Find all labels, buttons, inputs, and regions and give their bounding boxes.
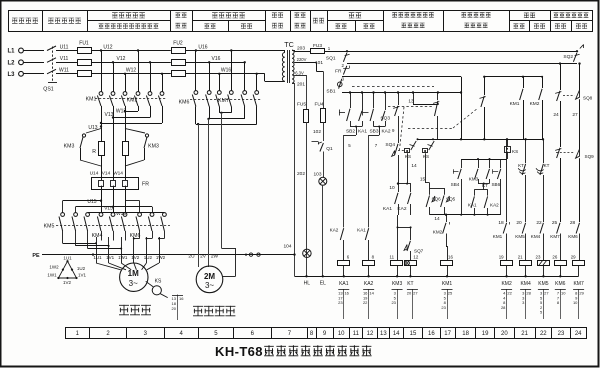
fuse FU4: [314, 101, 325, 122]
contact KM2 interlock: [433, 215, 454, 261]
fuse FU1: [78, 41, 171, 77]
fuse FU5: [297, 101, 309, 122]
wire TC primary bottom: [265, 74, 285, 82]
xref KM3: [391, 289, 402, 319]
svg-text:FU1: FU1: [79, 41, 89, 47]
wire node 7: [369, 126, 386, 228]
column number strip: [66, 327, 587, 338]
svg-text:23: 23: [338, 300, 343, 305]
svg-text:FU5: FU5: [297, 101, 306, 107]
mech dash diag: [408, 108, 478, 129]
svg-text:14: 14: [393, 331, 400, 337]
svg-text:KM3: KM3: [64, 144, 75, 150]
labels U14 V14 W14: [90, 171, 124, 177]
svg-text:KA1: KA1: [339, 281, 349, 287]
wire 15 drop: [420, 177, 445, 195]
svg-text:1U1: 1U1: [93, 255, 102, 260]
label EL: [320, 281, 326, 287]
speed group feed wires: [63, 201, 165, 214]
contact KM7 interlock: [550, 223, 560, 260]
svg-text:23: 23: [441, 305, 446, 310]
svg-text:1W2: 1W2: [49, 265, 59, 270]
wire 202: [295, 83, 306, 276]
svg-text:SQ3: SQ3: [380, 116, 390, 122]
svg-text:V13: V13: [105, 112, 114, 118]
svg-text:KM4: KM4: [531, 234, 541, 239]
label 10: [389, 182, 399, 191]
svg-text:16: 16: [344, 291, 349, 296]
motor 1M: [120, 263, 148, 291]
svg-text:27: 27: [413, 291, 418, 296]
switch SQ1: [326, 50, 350, 68]
limit SQ7: [404, 241, 424, 260]
svg-text:2W: 2W: [211, 253, 219, 259]
contact KM4 interlock: [531, 223, 544, 260]
relay KS contact b: [423, 138, 435, 182]
svg-text:EL: EL: [320, 281, 326, 287]
svg-text:U14: U14: [90, 171, 99, 177]
svg-text:KA1: KA1: [357, 228, 366, 233]
svg-text:1U2: 1U2: [77, 266, 86, 271]
wire 101: [315, 60, 324, 109]
label W15: [116, 189, 126, 217]
label U16: [198, 44, 207, 50]
wire node 5: [344, 126, 363, 228]
svg-text:16: 16: [448, 255, 453, 260]
mech link SB1 dashed: [352, 86, 434, 88]
svg-text:16: 16: [179, 296, 184, 301]
contact v438: [433, 93, 439, 140]
contact KM6 interlock: [568, 223, 579, 260]
svg-text:V12: V12: [117, 56, 126, 62]
resistor R2: [123, 142, 129, 178]
wire 102: [313, 123, 324, 142]
svg-text:12: 12: [413, 255, 418, 260]
xref KM6: [555, 289, 566, 319]
contact KA2 selfhold: [381, 93, 390, 135]
svg-text:29: 29: [571, 255, 576, 260]
contact v560 lower: [555, 148, 561, 222]
relay KS contact c: [505, 139, 519, 159]
limit SQ5: [441, 196, 456, 215]
label W12: [126, 68, 137, 74]
svg-text:L1: L1: [7, 49, 15, 55]
title KH-T68 horizontal boring machine electrical schematic: [215, 344, 372, 359]
button SB6: [491, 169, 500, 215]
svg-text:1W2: 1W2: [156, 255, 166, 260]
svg-text:KM4: KM4: [92, 233, 103, 239]
svg-text:23: 23: [391, 300, 396, 305]
contact FR nc: [335, 64, 349, 82]
wire HL drop: [306, 122, 308, 249]
svg-text:2M: 2M: [204, 272, 215, 281]
label main motor: [119, 305, 151, 315]
coil KM5: [536, 255, 550, 287]
svg-text:KM2: KM2: [433, 229, 443, 234]
label V12: [117, 56, 126, 62]
xref KM1: [441, 289, 453, 319]
wire V11: [58, 56, 77, 63]
svg-text:23: 23: [558, 331, 565, 337]
svg-text:KS: KS: [512, 149, 518, 154]
svg-text:14: 14: [369, 291, 374, 296]
svg-text:15: 15: [410, 331, 417, 337]
svg-text:L3: L3: [7, 72, 15, 78]
svg-text:2U: 2U: [188, 253, 195, 259]
svg-text:TC: TC: [284, 40, 294, 49]
svg-text:KS: KS: [423, 154, 429, 159]
svg-text:FR: FR: [335, 68, 342, 74]
label 103: [313, 172, 321, 178]
svg-text:SB4: SB4: [451, 182, 460, 187]
svg-text:FU4: FU4: [314, 101, 323, 107]
button SB4: [451, 169, 462, 215]
label 28: [570, 220, 576, 226]
wire TC primary top: [284, 51, 286, 53]
label 6.3V: [294, 70, 306, 75]
svg-text:23: 23: [536, 255, 541, 260]
motor 1M feeder fan: [96, 255, 160, 270]
svg-text:KM5: KM5: [44, 224, 55, 230]
delta winding diagram: [47, 256, 86, 286]
contact KT delay 2: [536, 139, 550, 226]
wire 201 to FU5: [306, 75, 308, 109]
svg-text:17: 17: [444, 331, 451, 337]
svg-text:28: 28: [570, 220, 576, 226]
svg-text:12: 12: [367, 331, 374, 337]
lamp EL: [319, 177, 327, 276]
terminal L2: [7, 60, 44, 66]
label 201: [292, 82, 305, 88]
limit SQ3: [380, 93, 399, 144]
mech dash SQ8: [563, 95, 575, 97]
wire v484 upper: [483, 76, 485, 95]
coil KM2: [499, 255, 513, 287]
motor 2M: [196, 266, 223, 293]
wire W11: [58, 68, 77, 74]
limit SQ6: [426, 196, 441, 215]
svg-text:SB1: SB1: [326, 89, 335, 95]
svg-text:27: 27: [572, 112, 578, 118]
wire to coils KM3 KT: [397, 204, 412, 260]
svg-text:10: 10: [338, 331, 345, 337]
wire 2U: [198, 124, 200, 267]
svg-text:KA1: KA1: [383, 206, 392, 212]
xref KA2: [363, 289, 375, 319]
svg-text:21: 21: [518, 255, 523, 260]
wire 104 label: [283, 244, 295, 256]
svg-text:1V2: 1V2: [131, 255, 140, 260]
contact KA1 interlock: [357, 228, 369, 261]
svg-text:1V2: 1V2: [63, 280, 72, 285]
coil KT mark: [405, 261, 409, 265]
svg-text:L2: L2: [7, 60, 15, 66]
contact KA2 b: [397, 193, 410, 215]
contactors KM5 KM4 KM6 main contacts: [44, 213, 170, 239]
transformer TC: [282, 40, 294, 83]
svg-text:KM7: KM7: [573, 281, 584, 287]
svg-text:24: 24: [575, 331, 582, 337]
svg-text:11: 11: [353, 331, 360, 337]
svg-text:KS: KS: [155, 279, 162, 285]
wire U13 down: [101, 123, 103, 141]
svg-text:11: 11: [390, 255, 395, 260]
svg-text:U15: U15: [87, 199, 96, 205]
svg-text:20: 20: [516, 220, 522, 226]
contact KT delay 1: [516, 139, 525, 226]
reversing cross wires: [100, 106, 163, 124]
xref KA1: [338, 289, 350, 319]
wire jog merge: [474, 183, 489, 196]
svg-text:KM3: KM3: [392, 281, 403, 287]
wire split to pair: [398, 155, 411, 192]
relay KS contact a: [398, 138, 419, 183]
coil KM5 hatch: [539, 261, 547, 266]
svg-text:V14: V14: [102, 171, 111, 177]
contact KA2 interlock: [330, 228, 344, 261]
switch SQ2: [563, 45, 583, 64]
coil KA1: [338, 255, 350, 287]
wire bottom bus: [295, 275, 579, 277]
svg-text:KM6: KM6: [555, 281, 566, 287]
label U15: [87, 189, 102, 213]
svg-text:KA2: KA2: [330, 228, 339, 233]
rapid reversing cross wires: [196, 107, 257, 126]
label 24: [553, 112, 559, 118]
contact KA2 jog: [484, 196, 499, 214]
limit SQ8: [576, 62, 593, 149]
wire line3b: [484, 76, 543, 78]
mech dash SQ9: [556, 152, 575, 154]
xref KM7: [573, 289, 585, 319]
svg-text:14: 14: [434, 216, 440, 222]
svg-text:W14: W14: [113, 171, 123, 177]
label U12: [103, 44, 112, 50]
label 203: [292, 46, 305, 52]
button SB1: [326, 77, 342, 95]
label PE: [32, 253, 40, 259]
coil KM1: [441, 261, 453, 287]
svg-text:KA2: KA2: [490, 203, 499, 208]
wire line 214: [430, 214, 501, 216]
fuse FU2: [172, 41, 286, 77]
svg-text:FR: FR: [142, 182, 149, 188]
label 13 and line: [408, 93, 439, 106]
contact linked 484: [480, 96, 486, 140]
svg-text:1W1: 1W1: [47, 273, 57, 278]
svg-text:KM6: KM6: [179, 100, 190, 106]
coil KM3: [390, 255, 403, 287]
svg-text:14: 14: [411, 163, 417, 169]
wire U11: [58, 44, 77, 50]
button SB2: [339, 93, 355, 135]
limit SQ9: [576, 149, 595, 222]
svg-text:PE: PE: [32, 253, 40, 259]
wire PE: [42, 253, 295, 255]
svg-text:KM2: KM2: [501, 281, 512, 287]
svg-text:203: 203: [297, 46, 305, 52]
svg-text:25: 25: [448, 291, 453, 296]
svg-text:R: R: [92, 149, 96, 155]
svg-text:22: 22: [507, 291, 512, 296]
svg-text:3~: 3~: [205, 281, 214, 290]
svg-text:103: 103: [313, 172, 321, 178]
svg-text:1V1: 1V1: [106, 255, 115, 260]
wire v560: [555, 62, 561, 147]
svg-text:20: 20: [407, 291, 412, 296]
resistor R: [92, 142, 104, 178]
svg-text:28: 28: [501, 305, 506, 310]
contact KA1 jog: [468, 196, 477, 214]
svg-text:KM1: KM1: [86, 97, 97, 103]
xref KM5: [538, 289, 549, 319]
svg-text:SB3: SB3: [369, 129, 378, 135]
wire W13 down: [125, 111, 127, 141]
svg-text:SB2: SB2: [346, 129, 355, 135]
label 220V: [294, 57, 316, 62]
svg-text:102: 102: [313, 129, 321, 135]
svg-text:U12: U12: [103, 44, 112, 50]
svg-text:KM5: KM5: [515, 234, 525, 239]
svg-text:KM1: KM1: [442, 281, 453, 287]
svg-text:SQ4: SQ4: [385, 142, 395, 148]
contact KM1 interlock: [493, 222, 510, 260]
svg-text:QS1: QS1: [43, 87, 53, 93]
svg-text:SQ7: SQ7: [414, 249, 424, 254]
wire loop top: [461, 158, 507, 168]
svg-text:1U2: 1U2: [144, 255, 153, 260]
svg-text:SB6: SB6: [491, 182, 500, 187]
labels 2U 2V 2W: [188, 253, 218, 259]
label HL: [304, 281, 311, 287]
contactor KM3 bypass contacts: [64, 129, 159, 167]
svg-text:3~: 3~: [129, 279, 138, 288]
xref KT: [407, 289, 419, 319]
label rapid motor: [193, 306, 235, 316]
svg-text:W13: W13: [116, 108, 127, 114]
terminal L1: [7, 48, 44, 54]
connector inline: [245, 253, 260, 256]
svg-text:U11: U11: [60, 44, 69, 50]
svg-text:U16: U16: [198, 44, 207, 50]
label 27: [572, 112, 578, 118]
wire line2: [347, 63, 577, 65]
wire line 139: [418, 138, 545, 140]
svg-text:21: 21: [521, 331, 528, 337]
svg-text:HL: HL: [304, 281, 311, 287]
svg-text:FU3: FU3: [313, 43, 322, 49]
svg-text:KM6: KM6: [568, 234, 578, 239]
svg-text:KS: KS: [405, 154, 411, 159]
svg-text:FU2: FU2: [173, 41, 183, 47]
label W16: [221, 68, 232, 74]
svg-text:22: 22: [540, 331, 547, 337]
KS cross reference: [172, 295, 185, 321]
svg-text:6.3V: 6.3V: [295, 70, 304, 75]
svg-text:SQ1: SQ1: [326, 55, 336, 61]
svg-text:1M: 1M: [128, 269, 139, 278]
coil KT: [405, 255, 419, 287]
svg-text:KM2: KM2: [530, 101, 540, 107]
coil KA2: [363, 255, 375, 287]
motor feeder merge wires: [63, 231, 165, 255]
svg-text:20: 20: [501, 331, 508, 337]
thermal relay FR: [92, 177, 150, 190]
svg-text:KM7: KM7: [218, 98, 229, 104]
wire 2W: [221, 113, 235, 277]
svg-text:SQ8: SQ8: [583, 95, 593, 100]
svg-text:104: 104: [283, 244, 291, 250]
switch Q1: [312, 142, 334, 178]
svg-text:19: 19: [499, 255, 504, 260]
svg-text:29: 29: [579, 291, 584, 296]
wire control bus: [342, 91, 461, 93]
contact KM5 interlock: [515, 223, 525, 260]
svg-text:KM3: KM3: [148, 144, 159, 150]
svg-text:24: 24: [553, 112, 559, 118]
svg-text:10: 10: [561, 291, 566, 296]
svg-text:KM1: KM1: [493, 234, 503, 239]
svg-text:10: 10: [389, 185, 395, 191]
svg-text:1W1: 1W1: [118, 255, 128, 260]
wire 2V: [208, 119, 210, 267]
svg-text:13: 13: [380, 331, 387, 337]
svg-text:19: 19: [482, 331, 489, 337]
svg-text:1U1: 1U1: [63, 256, 72, 261]
coil KM7: [571, 255, 585, 287]
label V16: [212, 56, 221, 62]
svg-text:10: 10: [573, 300, 578, 305]
svg-text:KM5: KM5: [538, 281, 549, 287]
svg-text:KM2: KM2: [127, 97, 138, 103]
xref KM4: [520, 289, 531, 319]
svg-text:22: 22: [536, 220, 542, 226]
svg-text:KT: KT: [518, 163, 524, 168]
svg-text:KA2: KA2: [381, 129, 390, 135]
svg-text:28: 28: [526, 291, 531, 296]
svg-text:20: 20: [172, 306, 177, 311]
contact KA1 b: [383, 193, 399, 215]
svg-text:1V1: 1V1: [78, 273, 87, 278]
header titles: [12, 12, 588, 28]
svg-text:Q1: Q1: [326, 146, 333, 152]
wire v507 down: [498, 139, 507, 226]
svg-text:18: 18: [462, 331, 469, 337]
svg-text:202: 202: [297, 171, 305, 177]
contact KM2 upper: [530, 77, 543, 140]
svg-text:KM7: KM7: [550, 234, 560, 239]
header table grid: [9, 10, 593, 32]
svg-text:KM6: KM6: [130, 233, 141, 239]
svg-text:KH-T68: KH-T68: [215, 344, 263, 359]
svg-text:KM3: KM3: [469, 177, 479, 182]
coil KM6: [552, 255, 566, 287]
svg-text:2V: 2V: [200, 253, 207, 259]
contact KA1 selfhold: [358, 93, 367, 135]
svg-text:16: 16: [428, 331, 435, 337]
svg-text:KA1: KA1: [358, 129, 367, 135]
mech dash SQ3: [388, 107, 434, 151]
lamp HL: [303, 249, 311, 276]
svg-text:KT: KT: [544, 163, 550, 168]
terminal L3: [7, 71, 44, 77]
svg-text:W11: W11: [59, 68, 69, 74]
svg-text:27: 27: [544, 291, 549, 296]
terminal labels: [93, 255, 165, 260]
svg-text:18: 18: [498, 220, 504, 226]
svg-text:22: 22: [363, 300, 368, 305]
svg-text:W12: W12: [126, 68, 137, 74]
